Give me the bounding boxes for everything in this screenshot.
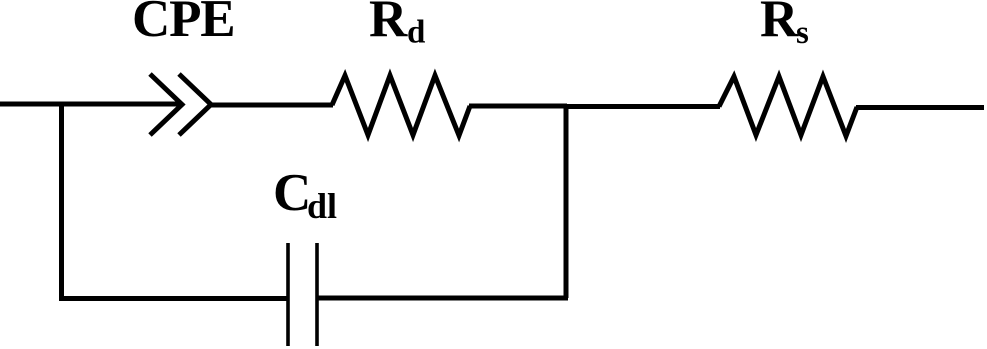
svg-text:R: R: [369, 0, 408, 48]
wire left input: [0, 102, 181, 107]
CPE element (double chevron): [150, 74, 211, 135]
svg-text:d: d: [407, 15, 425, 51]
resistor Rd: [332, 76, 470, 136]
wire right output: [856, 105, 984, 110]
label Rs: [760, 0, 809, 51]
label CPE: [132, 0, 234, 48]
wire bottom left: [59, 296, 289, 301]
svg-text:R: R: [760, 0, 799, 48]
wire node B to Rs: [566, 104, 720, 109]
svg-text:dl: dl: [307, 186, 337, 226]
resistor Rs: [719, 77, 857, 137]
capacitor Cdl: [288, 243, 317, 346]
wire CPE to Rd: [209, 103, 333, 108]
wire right vertical branch: [564, 104, 569, 298]
wire bottom right: [316, 296, 568, 301]
wire left vertical branch: [59, 102, 64, 299]
label Rd: [369, 0, 425, 51]
svg-text:C: C: [273, 164, 311, 222]
svg-text:CPE: CPE: [132, 0, 234, 48]
svg-text:s: s: [796, 15, 809, 51]
wire Rd to node B: [469, 104, 567, 109]
label Cdl: [273, 164, 337, 226]
